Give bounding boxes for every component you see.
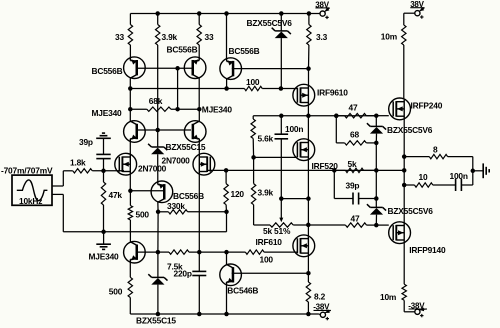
transistor Q1 BC556B [124, 57, 146, 79]
wire gate wire IRFP9140 [376, 224, 389, 226]
wire 47 upper to gate node [366, 115, 376, 117]
node zener bottom rail junction [156, 312, 161, 317]
resistor 47 upper [345, 114, 367, 118]
wire 500 lower to bottom rail [129, 298, 131, 315]
svg-text:5k: 5k [348, 159, 357, 169]
wire mirror output y88 rail [130, 88, 244, 90]
node 5k right junction [374, 168, 379, 173]
wire 3.9k lower to pot wire [253, 205, 255, 225]
wire 3.9k down to MJE bases node [157, 45, 159, 130]
svg-text:3.9k: 3.9k [162, 32, 178, 42]
svg-text:BZX55C15: BZX55C15 [136, 315, 176, 325]
svg-text:MJE340: MJE340 [92, 108, 123, 118]
wire IRFP240 source to output [403, 118, 405, 157]
wire right gate column upper [375, 116, 377, 127]
svg-text:10kHz: 10kHz [19, 196, 42, 206]
wire 47k to ground rail [103, 205, 105, 232]
svg-text:100n: 100n [285, 124, 303, 134]
wire rail to -38V terminal [319, 313, 320, 316]
power terminal +38V right [415, 11, 420, 16]
wire zener lower to bottom rail [157, 285, 159, 314]
node source-wiper junction [306, 196, 311, 201]
wire output column [403, 157, 405, 224]
zener BZX55C5V6 top [280, 14, 282, 31]
wire 8.2 to bottom rail [307, 302, 309, 314]
svg-text:2N7000: 2N7000 [162, 155, 191, 165]
transistor Q4 MJE340 left [124, 121, 146, 143]
wire ground rail [63, 231, 226, 233]
node IRF610 drain junction [306, 223, 311, 228]
mosfet M4 IRF520 [293, 139, 315, 161]
svg-text:10m: 10m [381, 32, 397, 42]
wire 68k to Q4 collector [129, 109, 131, 122]
transistor Q3 BC556B [220, 58, 242, 80]
wire 68k to Q5 collector [198, 109, 200, 122]
wire Q7 base to 8.2 node [232, 272, 309, 274]
node 39p right junction [374, 196, 379, 201]
wire 39p branch right [359, 198, 377, 200]
zener BZX55C15 upper [157, 130, 159, 147]
svg-text:38V: 38V [410, 0, 424, 9]
wire zener lower to gate node [375, 215, 377, 226]
svg-text:47: 47 [351, 214, 360, 224]
node rail-Q3 junction [224, 11, 229, 16]
svg-text:-38V: -38V [313, 303, 330, 312]
node gate IRF9610 junction [279, 86, 284, 91]
wire IRF9610 source to bus [307, 105, 309, 116]
resistor 330k [158, 211, 168, 213]
node 330k left junction [156, 210, 161, 215]
wire 38V right to 10m [404, 12, 415, 14]
transistor Q7 BC546B [226, 252, 228, 265]
svg-text:8.2: 8.2 [314, 292, 326, 302]
node rail-3.3 junction [307, 11, 312, 16]
resistor 47 lower [346, 223, 367, 227]
wire 100 to gate node [262, 88, 281, 90]
wire IRFP240 gate wire [376, 115, 389, 117]
node Q1 collector junction y88 [128, 86, 133, 91]
mosfet M3 IRF9610 [293, 84, 315, 106]
resistor 1.8k [73, 169, 93, 173]
wire 39p branch left [333, 170, 335, 198]
node input gate junction [101, 169, 106, 174]
wire 10 to 100n zobel [433, 184, 456, 186]
resistor 3.9k lower [253, 157, 255, 183]
svg-text:IRF610: IRF610 [256, 237, 283, 247]
wire 47 lower to gate column [367, 224, 377, 226]
resistor 100 upper [244, 86, 262, 90]
resistor 3.9k upper [157, 14, 159, 25]
svg-text:3.3: 3.3 [316, 32, 328, 42]
node 8.2 rail junction [306, 312, 311, 317]
svg-text:10: 10 [419, 172, 428, 182]
wire Q8 collector to 330k node [157, 201, 159, 212]
zener BZX55C15 lower [157, 252, 159, 277]
resistor 120 [225, 170, 227, 183]
svg-text:68k: 68k [149, 96, 163, 106]
wire gate node into IRF9610 [281, 88, 297, 90]
wire IRF520 source down [307, 159, 309, 237]
svg-text:33: 33 [205, 32, 214, 42]
wire Q4 emitter to M1 drain [129, 141, 131, 155]
wire base junction down to 68k [177, 68, 179, 109]
node 120 top junction [224, 168, 229, 173]
node 68 right junction [374, 141, 379, 146]
wire Q1 base to Q2 base [136, 67, 194, 69]
wire right gate column mid [375, 143, 377, 199]
svg-text:BZX55C5V6: BZX55C5V6 [388, 206, 434, 216]
svg-text:MJE340: MJE340 [89, 252, 120, 262]
resistor 500 lower [129, 262, 131, 278]
svg-text:IRFP240: IRFP240 [411, 101, 443, 111]
svg-text:-707m/707mV: -707m/707mV [1, 165, 53, 175]
wire 10m lower to -38V [403, 300, 405, 312]
resistor 33 right [198, 14, 200, 25]
mosfet M5 IRF610 [293, 235, 315, 257]
resistor 68k [130, 108, 147, 110]
transistor Q8 BC556B VAS [151, 181, 173, 203]
node MJE bases junction [155, 128, 160, 133]
svg-text:BC556B: BC556B [173, 191, 204, 201]
wire Q3 collector down [226, 79, 228, 89]
svg-text:38V: 38V [315, 0, 329, 9]
resistor 8.2 [307, 273, 309, 282]
node rail-zener junction [279, 11, 284, 16]
wire 10m to IRFP240 drain [403, 45, 405, 98]
wire 33 to Q1 emitter [129, 45, 131, 58]
node 330k right junction [224, 210, 229, 215]
wire bottom -38V rail [130, 313, 319, 315]
svg-text:47k: 47k [109, 190, 123, 200]
wire 120 to 330k node [225, 205, 227, 212]
svg-text:8: 8 [433, 144, 438, 154]
capacitor 220p [198, 252, 200, 271]
resistor 3.3 [308, 14, 310, 25]
svg-text:68: 68 [350, 130, 359, 140]
svg-text:1.8k: 1.8k [70, 158, 86, 168]
wire pot node to 47 lower [308, 224, 345, 226]
wire IRF610 source down [307, 255, 309, 273]
resistor 7.5k [158, 251, 169, 253]
svg-text:BZX55C5V6: BZX55C5V6 [247, 18, 293, 28]
resistor 10m lower [402, 284, 406, 300]
svg-text:BZX55C5V6: BZX55C5V6 [387, 125, 433, 135]
svg-text:47: 47 [349, 103, 358, 113]
svg-text:220p: 220p [174, 268, 192, 278]
wire source minus stub [52, 193, 63, 195]
transistor Q6 MJE340 bottom [124, 241, 146, 263]
ground output [482, 163, 484, 178]
node 68k right junction [197, 107, 202, 112]
svg-text:100n: 100n [450, 171, 468, 181]
node Q7 collector junction [224, 250, 229, 255]
node bus 68 junction [334, 114, 339, 119]
mosfet M6 IRFP240 [389, 98, 411, 120]
node 68k mid junction [175, 107, 180, 112]
wire 5k right stub [364, 169, 377, 171]
node 68k left junction [128, 107, 133, 112]
zener BZX55C5V6 lower [370, 206, 382, 208]
node bus 100n junction [279, 114, 284, 119]
node wiper upper junction [279, 196, 284, 201]
wire mid bus [253, 115, 376, 117]
svg-text:-38V: -38V [408, 301, 425, 310]
wire VAS base [130, 190, 163, 192]
wire 100 lower to IRF610 gate [264, 251, 297, 253]
svg-text:IRFP9140: IRFP9140 [409, 245, 446, 255]
node gate IRFP240 junction [374, 113, 379, 118]
wire Q3 base to IRF9610 drain node [232, 68, 309, 70]
node rail-33b junction [197, 11, 202, 16]
wire Q4 base to bias node [136, 129, 192, 131]
node Q3base-3.3-drain junction [306, 66, 311, 71]
capacitor 100n comp [280, 116, 282, 134]
wire M2 source down to 7.5k node [198, 174, 200, 252]
wire IRF9610 drain up [308, 69, 310, 86]
wire 3.3 to Q3-base node [308, 45, 310, 69]
wire Q6 base [136, 251, 158, 253]
node Q6 base junction [156, 250, 161, 255]
wire pot to drain node [293, 224, 308, 226]
wire top +38V rail [130, 13, 319, 15]
wire zener to 100 ohm node [280, 38, 282, 88]
wire IRF520 drain [307, 116, 309, 141]
svg-text:BC556B: BC556B [92, 66, 123, 76]
resistor 5k [346, 168, 364, 172]
svg-text:330k: 330k [167, 201, 185, 211]
mosfet M7 IRFP9140 [389, 222, 411, 244]
node Q7 emitter rail junction [224, 312, 229, 317]
wire IRFP9140 source down [403, 242, 405, 284]
resistor 5.6k [252, 116, 254, 119]
pot wiper arrow [280, 199, 282, 219]
node output feedback junction [402, 168, 407, 173]
node IRF610 source junction [306, 271, 311, 276]
resistor 8 load [404, 156, 429, 158]
svg-text:100: 100 [246, 77, 260, 87]
node rail-3.9k junction [155, 11, 160, 16]
svg-text:500: 500 [109, 287, 123, 297]
wire wiper node link [281, 198, 308, 200]
svg-text:BC546B: BC546B [227, 285, 258, 295]
mosfet M2 2N7000 right [193, 153, 215, 175]
wire 1.8k to M1 gate [92, 170, 124, 172]
node gate IRFP9140 junction [374, 223, 379, 228]
node zobel ground junction [471, 169, 476, 174]
power terminal -38V left [320, 312, 325, 317]
transistor Q5 MJE340 right [184, 121, 206, 143]
svg-text:500: 500 [136, 209, 150, 219]
wire right column to zener lower [375, 199, 377, 208]
wire 68 branch [335, 116, 337, 143]
resistor 500 upper [129, 191, 131, 206]
svg-text:33: 33 [115, 32, 124, 42]
resistor 10m upper [402, 25, 406, 45]
svg-text:BC556B: BC556B [167, 44, 198, 54]
wire Q7 emitter to bottom rail [226, 284, 228, 314]
node bus source junction [306, 114, 311, 119]
input source box [12, 175, 52, 205]
ground below 47k [103, 232, 105, 244]
node 220p junction [197, 250, 202, 255]
wire source plus stub [52, 185, 63, 187]
node output 8ohm junction [402, 154, 407, 159]
svg-text:IRF9610: IRF9610 [317, 88, 348, 98]
node 5k left junction [332, 168, 337, 173]
svg-text:39p: 39p [79, 137, 93, 147]
svg-text:100: 100 [260, 254, 274, 264]
wire M1 source down [129, 174, 131, 191]
node IRF520 gate junction [251, 155, 256, 160]
wire zener to Q8 emitter [157, 154, 159, 182]
svg-text:10m: 10m [380, 292, 396, 302]
potentiometer 5k 51% [270, 223, 293, 227]
node 220p bottom rail junction [197, 312, 202, 317]
wire 500 down to Q6 collector [129, 220, 131, 242]
transistor Q2 BC556B [184, 57, 206, 79]
wire VAS emitter column down [157, 212, 159, 252]
wire 8 to right column [448, 156, 473, 158]
wire 100n zobel to column [461, 184, 472, 186]
capacitor 39p input [103, 138, 105, 154]
wire 100n down to wiper node [280, 139, 282, 199]
wire Q5 emitter to M2 drain [198, 141, 200, 155]
wire input to 1.8k [63, 170, 73, 172]
wire feedback gate wire [208, 169, 405, 171]
mosfet M1 2N7000 left [115, 153, 137, 175]
node ground rail junction [101, 230, 106, 235]
wire to output ground [473, 170, 483, 172]
power terminal +38V left [320, 11, 325, 16]
wire Q1 collector down [129, 77, 131, 109]
resistor 47k [103, 171, 105, 182]
node M1 source junction [128, 189, 133, 194]
capacitor 100n zobel [455, 179, 457, 191]
node base wire junction [175, 66, 180, 71]
node Q3 emitter junction [224, 86, 229, 91]
node output zobel junction [402, 183, 407, 188]
ground above 39p [96, 137, 111, 139]
wire 120 node to ground rail [226, 212, 228, 232]
svg-text:5k 51%: 5k 51% [263, 226, 291, 236]
resistor 10 zobel [404, 184, 414, 186]
svg-text:120: 120 [231, 189, 245, 199]
wire 5.6k to gate node [252, 139, 254, 158]
resistor 33 left [129, 14, 131, 25]
svg-text:BC556B: BC556B [229, 46, 260, 56]
wire 5k left stub [334, 169, 345, 171]
wire 68 to right column [366, 142, 376, 144]
svg-text:3.9k: 3.9k [258, 187, 274, 197]
wire IRF520 gate wire [254, 156, 298, 158]
svg-text:5.6k: 5.6k [258, 133, 274, 143]
svg-text:39p: 39p [346, 181, 360, 191]
zener BZX55C5V6 mid [370, 125, 382, 127]
wire 39p to gate node [103, 159, 105, 171]
resistor 100 lower [245, 250, 264, 254]
wire rail to Q3 emitter [226, 14, 228, 59]
node 47 upper left junction [334, 114, 339, 119]
capacitor 39p feedback [352, 193, 354, 205]
source sine wave [17, 180, 48, 201]
wire 33 to Q2 emitter [198, 45, 200, 58]
svg-text:MJE340: MJE340 [202, 105, 233, 115]
resistor 68 [345, 141, 367, 145]
wire Q2 collector down to 68k [198, 77, 200, 109]
power terminal -38V right [415, 309, 420, 314]
